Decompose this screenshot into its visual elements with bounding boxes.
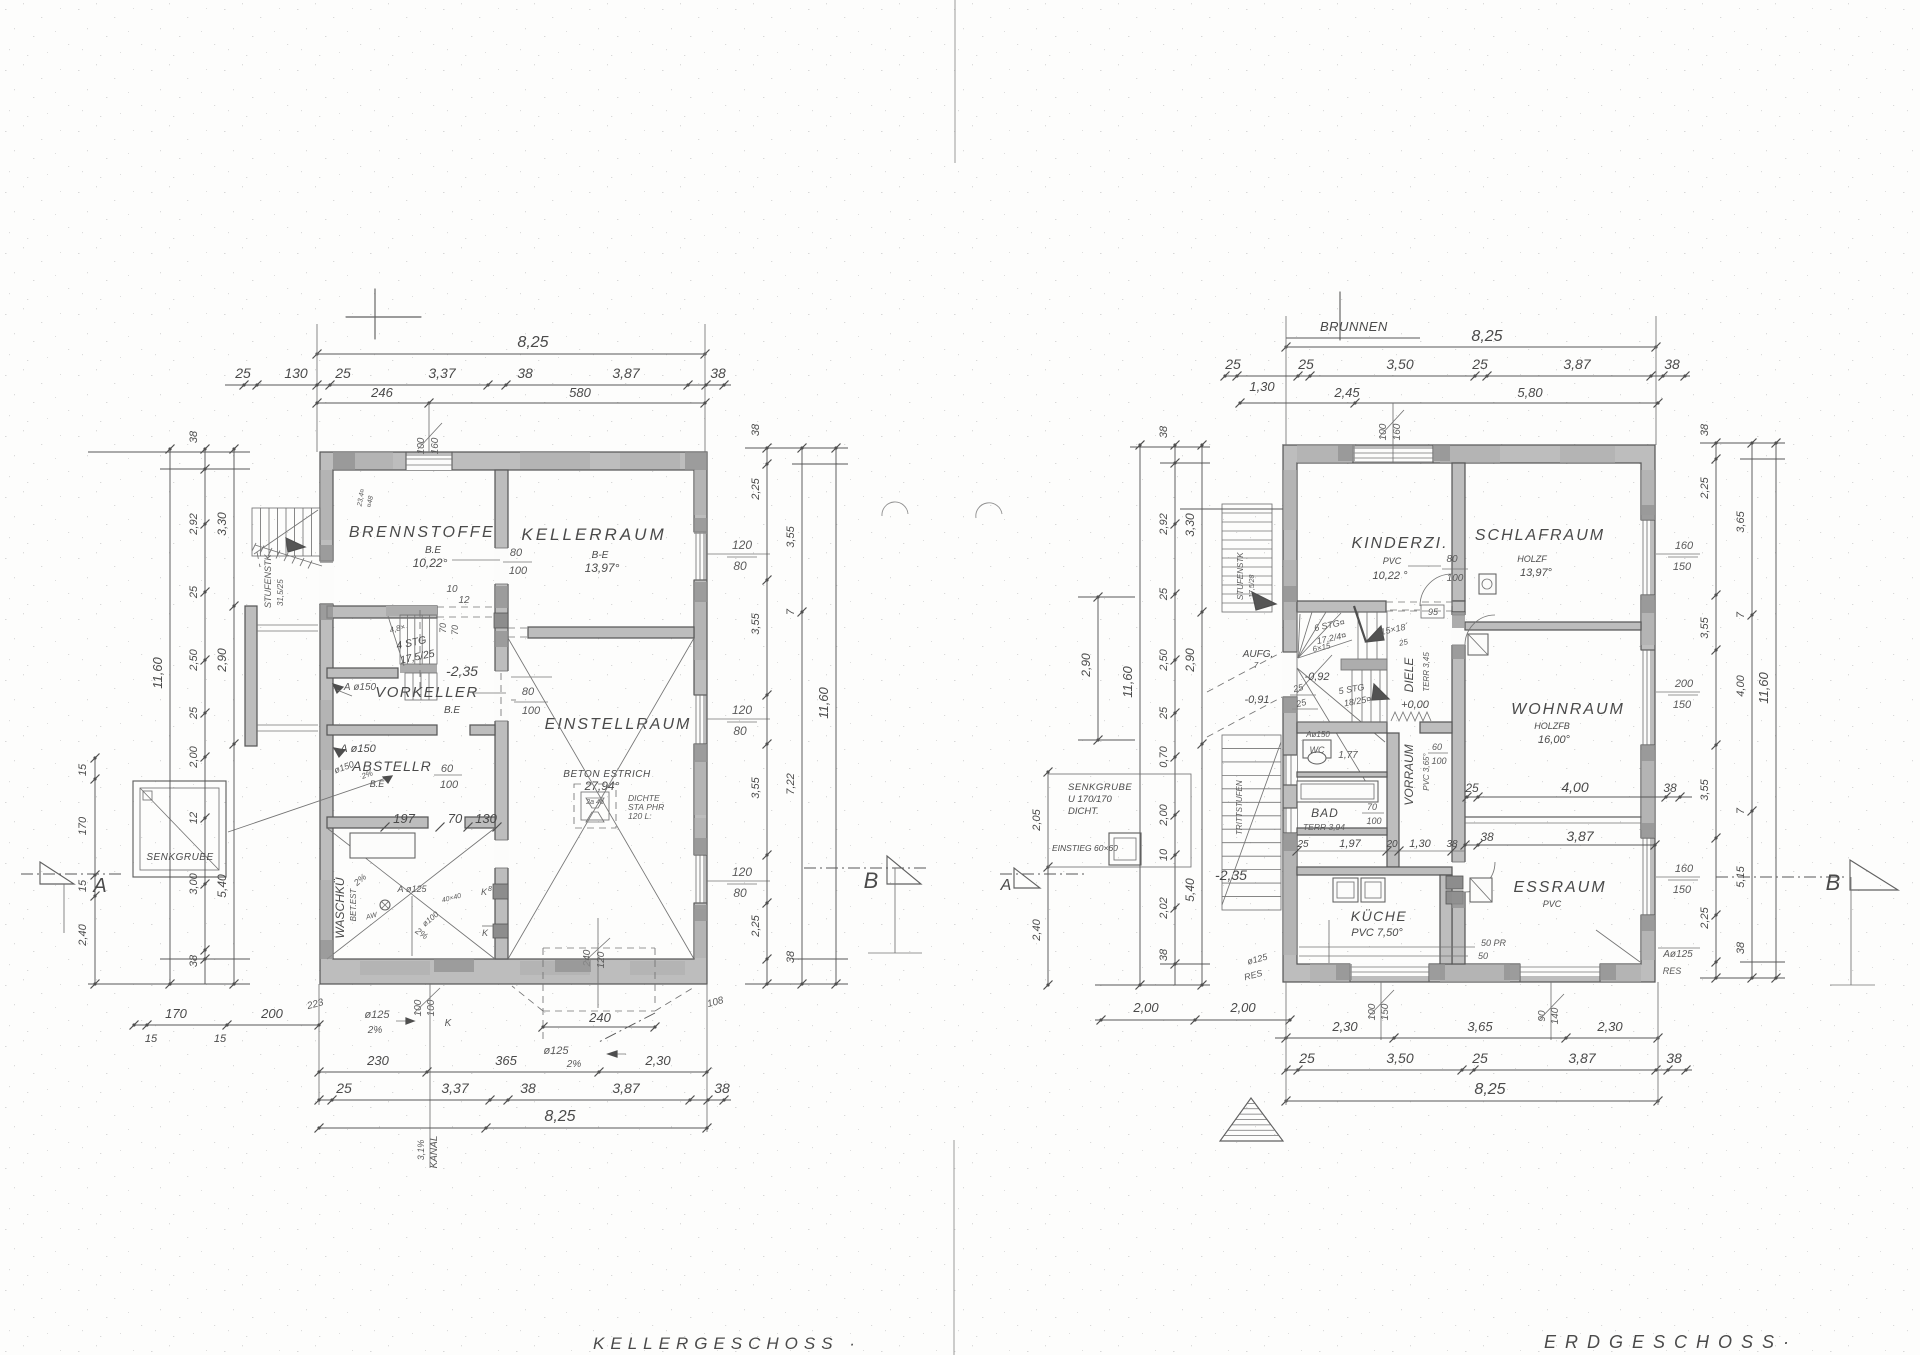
svg-text:25: 25 — [335, 1080, 352, 1096]
svg-text:2,00: 2,00 — [188, 745, 200, 768]
north/delta hatch triangle — [1220, 1103, 1282, 1141]
punch hole left — [882, 502, 908, 516]
svg-text:7: 7 — [785, 608, 797, 615]
window left wall bad — [1287, 808, 1297, 833]
right plan outer wall — [1283, 445, 1655, 982]
svg-text:WOHNRAUM: WOHNRAUM — [1511, 701, 1625, 718]
KUECHE counter lines — [1299, 946, 1475, 948]
svg-text:2,05: 2,05 — [1031, 808, 1043, 831]
svg-text:200: 200 — [1674, 678, 1694, 690]
sewer pipe to SENKGRUBE — [228, 776, 392, 832]
svg-text:38: 38 — [517, 365, 533, 381]
svg-text:ø125: ø125 — [543, 1045, 569, 1057]
svg-text:150: 150 — [1673, 699, 1692, 711]
svg-text:BRENNSTOFFE: BRENNSTOFFE — [349, 524, 495, 541]
spine door gaps — [1451, 615, 1466, 645]
dim 38 3,87 in ESSRAUM — [1465, 844, 1655, 846]
main interior spine wall right plan — [1452, 612, 1465, 964]
door labels 80/100 kinderzi — [1408, 565, 1441, 567]
svg-text:38: 38 — [1446, 839, 1458, 850]
dim 230 365 2,30 bottom left — [319, 1071, 707, 1073]
svg-text:38: 38 — [785, 950, 797, 963]
svg-text:KINDERZI.: KINDERZI. — [1351, 535, 1448, 552]
svg-text:B: B — [1826, 870, 1841, 895]
svg-text:PVC: PVC — [1383, 556, 1402, 566]
svg-text:3,30: 3,30 — [1183, 513, 1197, 537]
svg-text:38: 38 — [1664, 356, 1680, 372]
dim row 246 580 — [317, 402, 705, 404]
svg-text:2,30: 2,30 — [1596, 1019, 1623, 1034]
vdim 2,90 short — [1097, 597, 1099, 740]
window callout 120/80 lower — [707, 880, 770, 882]
svg-text:12: 12 — [458, 595, 470, 606]
window right wall lower 120/80 — [693, 855, 703, 903]
svg-text:+0,00: +0,00 — [1401, 699, 1430, 711]
stair arrow wedge 15x18 — [1366, 626, 1384, 642]
svg-text:3,87: 3,87 — [612, 365, 640, 381]
svg-text:100: 100 — [413, 999, 424, 1016]
registration cross left plan — [346, 316, 421, 318]
svg-text:15: 15 — [77, 763, 89, 776]
dark wall mottle left plan — [694, 518, 707, 534]
svg-text:Aø125: Aø125 — [1662, 949, 1693, 960]
door arc ESSRAUM — [1465, 862, 1495, 892]
punch hole right — [976, 503, 1002, 518]
ESSRAUM stove — [1470, 878, 1492, 902]
svg-text:100: 100 — [1447, 573, 1464, 584]
svg-text:80: 80 — [733, 886, 747, 900]
floor drain WASCHKU — [380, 900, 390, 910]
svg-text:VORRAUM: VORRAUM — [1402, 744, 1416, 805]
svg-text:100: 100 — [1366, 816, 1381, 826]
svg-text:15: 15 — [145, 1033, 158, 1045]
svg-text:A ø125: A ø125 — [396, 884, 427, 894]
interior wall below BRENNSTOFFE — [327, 606, 437, 618]
svg-text:2a 4o: 2a 4o — [585, 799, 604, 806]
svg-text:11,60: 11,60 — [816, 686, 831, 718]
svg-text:16,00°: 16,00° — [1538, 734, 1571, 746]
vdim 3,30 2,90 5,40 right plan — [1201, 445, 1203, 985]
window callout 160/150 lower right — [1656, 876, 1700, 878]
entrance door left wall — [1282, 652, 1298, 697]
svg-text:2,25: 2,25 — [1699, 476, 1711, 499]
svg-text:150: 150 — [1673, 884, 1692, 896]
svg-text:2,92: 2,92 — [1158, 513, 1170, 535]
svg-text:0,70: 0,70 — [1158, 745, 1170, 767]
section marker B right plan — [1716, 876, 1845, 878]
svg-text:80: 80 — [1446, 554, 1458, 565]
svg-text:12: 12 — [188, 812, 200, 824]
garage door dashed 240 — [542, 948, 544, 1040]
svg-text:K: K — [482, 928, 489, 938]
page fold line top — [954, 0, 956, 163]
interior wall below ABSTELLR — [327, 817, 428, 828]
svg-text:SCHLAFRAUM: SCHLAFRAUM — [1475, 527, 1605, 544]
svg-text:PVC 7,50°: PVC 7,50° — [1351, 927, 1403, 939]
canal line — [429, 984, 431, 1168]
svg-text:A: A — [92, 875, 106, 897]
svg-text:TERR 3,45: TERR 3,45 — [1422, 652, 1431, 692]
svg-text:25: 25 — [1297, 356, 1314, 372]
svg-text:3,65: 3,65 — [1735, 510, 1747, 532]
interior wall KINDERZI-SCHLAFRAUM — [1452, 463, 1465, 601]
vdim right margin 11,60 right plan — [1775, 443, 1777, 978]
svg-text:A ø150: A ø150 — [343, 682, 377, 693]
svg-text:150: 150 — [1673, 561, 1692, 573]
svg-text:8,25: 8,25 — [1474, 1081, 1505, 1098]
svg-text:3,87: 3,87 — [612, 1080, 640, 1096]
svg-text:3,55: 3,55 — [785, 525, 797, 547]
svg-text:AUFG.: AUFG. — [1242, 649, 1274, 660]
svg-text:8,25: 8,25 — [544, 1108, 575, 1125]
section marker B leftplan — [804, 867, 929, 869]
WOHNRAUM stove — [1468, 634, 1488, 655]
svg-text:2,00: 2,00 — [1158, 803, 1170, 826]
window top wall right plan — [1353, 449, 1433, 461]
svg-text:140: 140 — [1550, 1007, 1561, 1024]
svg-text:SENKGRUBE: SENKGRUBE — [146, 852, 213, 863]
svg-text:3,55: 3,55 — [750, 776, 762, 798]
svg-text:38: 38 — [188, 430, 200, 443]
svg-text:WC: WC — [1310, 745, 1325, 755]
dim 8,25 bottom left — [319, 1127, 707, 1129]
svg-text:2,40: 2,40 — [1031, 918, 1043, 941]
dim 2,00 2,00 bottom — [1095, 1019, 1290, 1021]
svg-text:25: 25 — [1224, 356, 1241, 372]
window callout 160/150 upper right — [1656, 553, 1700, 555]
door left wall to stair — [319, 561, 334, 604]
right margin extension rows leftplan — [745, 447, 848, 449]
svg-text:160: 160 — [1675, 863, 1694, 875]
svg-text:7,22: 7,22 — [785, 773, 797, 794]
svg-text:38: 38 — [710, 365, 726, 381]
svg-text:3,55: 3,55 — [1699, 778, 1711, 800]
svg-text:STUFENSTK: STUFENSTK — [263, 553, 273, 608]
svg-text:80: 80 — [733, 724, 747, 738]
svg-text:2,30: 2,30 — [644, 1053, 671, 1068]
svg-text:240: 240 — [588, 1010, 611, 1025]
KUECHE sinks — [1333, 878, 1358, 902]
svg-text:50 PR: 50 PR — [1481, 938, 1507, 948]
window center mark 240 120 rotated — [597, 918, 599, 1008]
WC fixture — [1303, 740, 1331, 758]
vdim right margin 2 leftplan — [801, 448, 803, 984]
svg-text:170: 170 — [77, 816, 89, 835]
svg-text:5,40: 5,40 — [215, 874, 229, 898]
svg-text:8,25: 8,25 — [1471, 328, 1502, 345]
ramp dashes — [1207, 652, 1282, 692]
stair upper flight left plan — [386, 606, 437, 616]
svg-text:SENKGRUBE: SENKGRUBE — [1068, 782, 1132, 793]
vdim 3,30 2,90 5,40 left — [233, 449, 235, 984]
svg-text:38: 38 — [1735, 941, 1747, 954]
exterior stair top-left — [252, 508, 320, 556]
svg-text:1,30: 1,30 — [1409, 838, 1431, 850]
vdim senkgrube left 15 170 15 2,40 — [94, 757, 96, 984]
svg-text:3,37: 3,37 — [428, 365, 456, 381]
svg-text:HOLZF: HOLZF — [1517, 554, 1547, 564]
bottom extension lines leftplan — [318, 984, 320, 1105]
pipe dashdot 125 2% — [597, 1013, 655, 1043]
svg-text:BRUNNEN: BRUNNEN — [1320, 319, 1388, 334]
svg-text:160: 160 — [1675, 540, 1694, 552]
svg-text:-2,35: -2,35 — [446, 663, 478, 679]
svg-text:25: 25 — [1298, 1050, 1315, 1066]
svg-text:BET.EST: BET.EST — [349, 888, 358, 922]
svg-text:ESSRAUM: ESSRAUM — [1513, 879, 1606, 896]
svg-text:38: 38 — [520, 1080, 536, 1096]
svg-text:ERDGESCHOSS·: ERDGESCHOSS· — [1544, 1332, 1798, 1352]
wall above KUECHE — [1297, 867, 1452, 875]
window right wall 200/150 — [1640, 650, 1650, 745]
svg-text:3,87: 3,87 — [1563, 356, 1591, 372]
svg-text:11,60: 11,60 — [150, 656, 165, 688]
svg-text:K: K — [481, 887, 488, 897]
svg-text:TERR 3,94: TERR 3,94 — [1303, 822, 1345, 832]
right margin rows right plan — [1700, 442, 1785, 444]
svg-text:PVC 3,65°: PVC 3,65° — [1422, 752, 1431, 790]
svg-text:31,5/25: 31,5/25 — [276, 579, 285, 606]
svg-text:170: 170 — [165, 1006, 187, 1021]
svg-text:38: 38 — [188, 954, 200, 967]
EINSTIEG square — [1109, 833, 1141, 865]
svg-text:PVC: PVC — [1543, 899, 1562, 909]
svg-text:160: 160 — [1392, 423, 1403, 440]
svg-text:25: 25 — [1471, 356, 1488, 372]
svg-text:2%: 2% — [367, 1025, 383, 1036]
svg-text:U 170/170: U 170/170 — [1068, 794, 1113, 805]
washing trough — [350, 833, 415, 858]
wall below SCHLAFRAUM — [1465, 622, 1641, 630]
svg-text:3,87: 3,87 — [1566, 828, 1594, 844]
svg-text:11,60: 11,60 — [1756, 671, 1771, 703]
EINSTELLRAUM diagonal cross — [508, 638, 694, 959]
svg-text:80: 80 — [510, 547, 523, 559]
svg-text:120: 120 — [732, 865, 752, 879]
svg-text:25: 25 — [1158, 706, 1170, 720]
svg-text:15: 15 — [214, 1033, 227, 1045]
svg-text:38: 38 — [1699, 423, 1711, 436]
wall shading patches right — [1297, 445, 1352, 463]
svg-text:2,50: 2,50 — [1158, 648, 1170, 671]
svg-text:120: 120 — [732, 538, 752, 552]
dim 8,25 top left plan — [317, 353, 705, 355]
svg-text:STUFENSTK: STUFENSTK — [1236, 552, 1245, 600]
svg-text:TRITTSTUFEN: TRITTSTUFEN — [1235, 780, 1244, 835]
wall below stair hall DIELE — [1297, 722, 1387, 733]
section marker A left — [21, 873, 122, 875]
svg-text:100: 100 — [522, 705, 541, 717]
stair thick cut line — [1354, 606, 1366, 642]
svg-text:20: 20 — [1385, 839, 1398, 850]
chimney flues right plan — [1446, 876, 1463, 889]
svg-text:3,00: 3,00 — [188, 872, 200, 894]
light shaft wall left — [245, 606, 257, 746]
svg-text:100: 100 — [426, 999, 437, 1016]
vdim detail right plan — [1174, 445, 1176, 985]
svg-text:7: 7 — [1254, 661, 1259, 670]
window right wall 160/150 — [1640, 520, 1650, 595]
svg-text:580: 580 — [569, 385, 591, 400]
window callout 120/80 upper — [707, 553, 770, 555]
svg-text:10: 10 — [1158, 848, 1170, 861]
svg-text:38: 38 — [750, 423, 762, 436]
svg-text:25: 25 — [1296, 839, 1309, 850]
svg-text:13,97°: 13,97° — [585, 561, 620, 575]
page fold line bottom — [953, 1140, 955, 1355]
section marker A right plan — [1000, 873, 1085, 875]
entrance door leaf — [1297, 655, 1332, 693]
vdim detail left — [204, 449, 206, 984]
window bottom wall kitchen — [1350, 963, 1429, 976]
svg-text:10,22°: 10,22° — [413, 556, 448, 570]
dim 2,30 3,65 2,30 bottom — [1275, 1037, 1658, 1039]
wall below BAD — [1297, 828, 1387, 835]
svg-text:1,97: 1,97 — [1339, 838, 1361, 850]
wall below WC — [1297, 772, 1387, 777]
svg-text:-2,35: -2,35 — [1215, 867, 1247, 883]
svg-text:25: 25 — [1471, 1050, 1488, 1066]
svg-text:-0,91: -0,91 — [1244, 694, 1269, 706]
dim 25 3,50 25 3,87 38 bottom right plan — [1286, 1069, 1692, 1071]
door arc SCHLAFRAUM — [1465, 615, 1495, 645]
svg-text:150: 150 — [1380, 1003, 1391, 1020]
svg-text:80: 80 — [522, 686, 535, 698]
door gap in main interior wall upper — [494, 548, 509, 584]
dim 8,25 bottom right plan — [1286, 1100, 1658, 1102]
wall between KELLERRAUM and EINSTELLRAUM — [528, 627, 694, 638]
svg-text:25: 25 — [334, 365, 351, 381]
exterior stair right plan lower — [1222, 735, 1281, 910]
stair lower flight left plan — [405, 673, 437, 700]
svg-text:100: 100 — [509, 565, 528, 577]
door opening VORKELLER to EINSTELLRAUM — [494, 671, 509, 721]
svg-text:ø125: ø125 — [364, 1009, 390, 1021]
svg-text:KELLERGESCHOSS ·: KELLERGESCHOSS · — [593, 1334, 861, 1353]
svg-text:50: 50 — [1478, 951, 1488, 961]
svg-text:2,25: 2,25 — [750, 914, 762, 937]
window left wall vorraum — [1287, 755, 1297, 785]
svg-text:11,60: 11,60 — [1120, 665, 1135, 697]
svg-text:3,30: 3,30 — [215, 512, 229, 536]
svg-text:5,80: 5,80 — [1517, 385, 1543, 400]
svg-text:2,92: 2,92 — [188, 513, 200, 535]
threshold block on wall — [494, 613, 508, 628]
svg-text:10,22 °: 10,22 ° — [1373, 570, 1409, 582]
interior wall vertical main left plan — [495, 470, 508, 959]
svg-text:25: 25 — [234, 365, 251, 381]
ramp hatch band — [255, 545, 322, 566]
svg-text:Aø150: Aø150 — [1305, 730, 1330, 739]
svg-text:4,00: 4,00 — [1735, 674, 1747, 696]
svg-text:B: B — [864, 868, 879, 893]
svg-text:365: 365 — [495, 1053, 517, 1068]
door size labels 80/100 top — [452, 559, 500, 561]
left margin extension rows — [88, 451, 250, 453]
svg-text:1,77: 1,77 — [1338, 750, 1358, 761]
WASCHKU diagonal cross — [327, 828, 495, 959]
svg-text:3,55: 3,55 — [1699, 616, 1711, 638]
beam dashed over stair opening — [437, 606, 495, 608]
svg-text:15: 15 — [77, 879, 89, 892]
svg-text:WASCHKÜ: WASCHKÜ — [333, 877, 347, 938]
svg-text:EINSTELLRAUM: EINSTELLRAUM — [545, 716, 692, 733]
svg-text:A: A — [1000, 877, 1012, 894]
svg-text:10: 10 — [446, 584, 458, 595]
svg-text:1,30: 1,30 — [1249, 379, 1275, 394]
stair arrow DIELE lower — [1372, 684, 1389, 700]
svg-text:BAD: BAD — [1311, 806, 1339, 820]
svg-text:2,25: 2,25 — [1699, 906, 1711, 929]
BAD tub — [1297, 781, 1378, 802]
svg-text:2,30: 2,30 — [1331, 1019, 1358, 1034]
dim 170 200 bottom left — [134, 1024, 319, 1026]
interior wall above ABSTELLR — [327, 725, 437, 735]
label 95 box — [1421, 605, 1444, 618]
svg-text:B-E: B-E — [592, 550, 609, 561]
beam below WOHNRAUM — [1465, 816, 1641, 818]
vdim 2,05 2,40 — [1047, 772, 1049, 985]
ESSRAUM corner diagonal — [1596, 930, 1640, 962]
svg-text:2,90: 2,90 — [1079, 653, 1093, 678]
svg-text:2,90: 2,90 — [1183, 648, 1197, 673]
wall shading patches — [333, 452, 393, 469]
dim 25 3,37 38 3,87 38 bottom left — [319, 1099, 731, 1101]
svg-text:2,40: 2,40 — [77, 923, 89, 946]
window right wall upper 120/80 — [693, 532, 703, 580]
svg-text:2,25: 2,25 — [750, 477, 762, 500]
vdim 11,60 right plan — [1139, 445, 1141, 985]
SCHLAFRAUM basin — [1479, 574, 1496, 594]
svg-text:197: 197 — [393, 811, 415, 826]
svg-text:2,02: 2,02 — [1158, 897, 1170, 919]
svg-text:200: 200 — [260, 1006, 283, 1021]
svg-text:3,50: 3,50 — [1386, 1050, 1413, 1066]
svg-text:2,90: 2,90 — [215, 648, 229, 673]
svg-text:4,00: 4,00 — [1561, 779, 1588, 795]
svg-text:HOLZFB: HOLZFB — [1534, 721, 1570, 731]
svg-text:38: 38 — [1663, 781, 1677, 795]
svg-text:70: 70 — [438, 623, 448, 633]
svg-text:KANAL: KANAL — [429, 1136, 440, 1169]
svg-text:130: 130 — [475, 811, 497, 826]
svg-text:160: 160 — [430, 437, 441, 454]
svg-text:60: 60 — [1432, 742, 1442, 752]
svg-text:8,25: 8,25 — [517, 334, 548, 351]
vdim right margin B right plan — [1751, 443, 1753, 978]
wall KUECHE right / flues — [1440, 875, 1452, 964]
svg-text:3,50: 3,50 — [1386, 356, 1413, 372]
svg-text:13,97°: 13,97° — [1520, 567, 1553, 579]
stair slope wedge — [286, 538, 305, 552]
svg-text:38: 38 — [1158, 425, 1170, 438]
svg-text:3,55: 3,55 — [750, 612, 762, 634]
SENKGRUBE tank — [133, 781, 226, 877]
svg-text:38: 38 — [1158, 948, 1170, 961]
window bottom wall essraum — [1520, 963, 1600, 976]
stair straight flight DIELE — [1352, 670, 1387, 722]
vdim right margin A right plan — [1715, 443, 1717, 978]
svg-text:EINSTIEG 60×60: EINSTIEG 60×60 — [1052, 843, 1118, 853]
svg-text:DICHT.: DICHT. — [1068, 806, 1099, 817]
svg-text:DIELE: DIELE — [1402, 657, 1416, 693]
svg-text:120 L:: 120 L: — [628, 811, 652, 821]
window right wall middle 120/80 — [693, 695, 703, 744]
svg-text:80: 80 — [733, 559, 747, 573]
dim 25 4,00 38 in WOHNRAUM — [1467, 796, 1692, 798]
svg-text:3,1%: 3,1% — [416, 1140, 426, 1161]
left plan outer wall — [320, 452, 707, 984]
